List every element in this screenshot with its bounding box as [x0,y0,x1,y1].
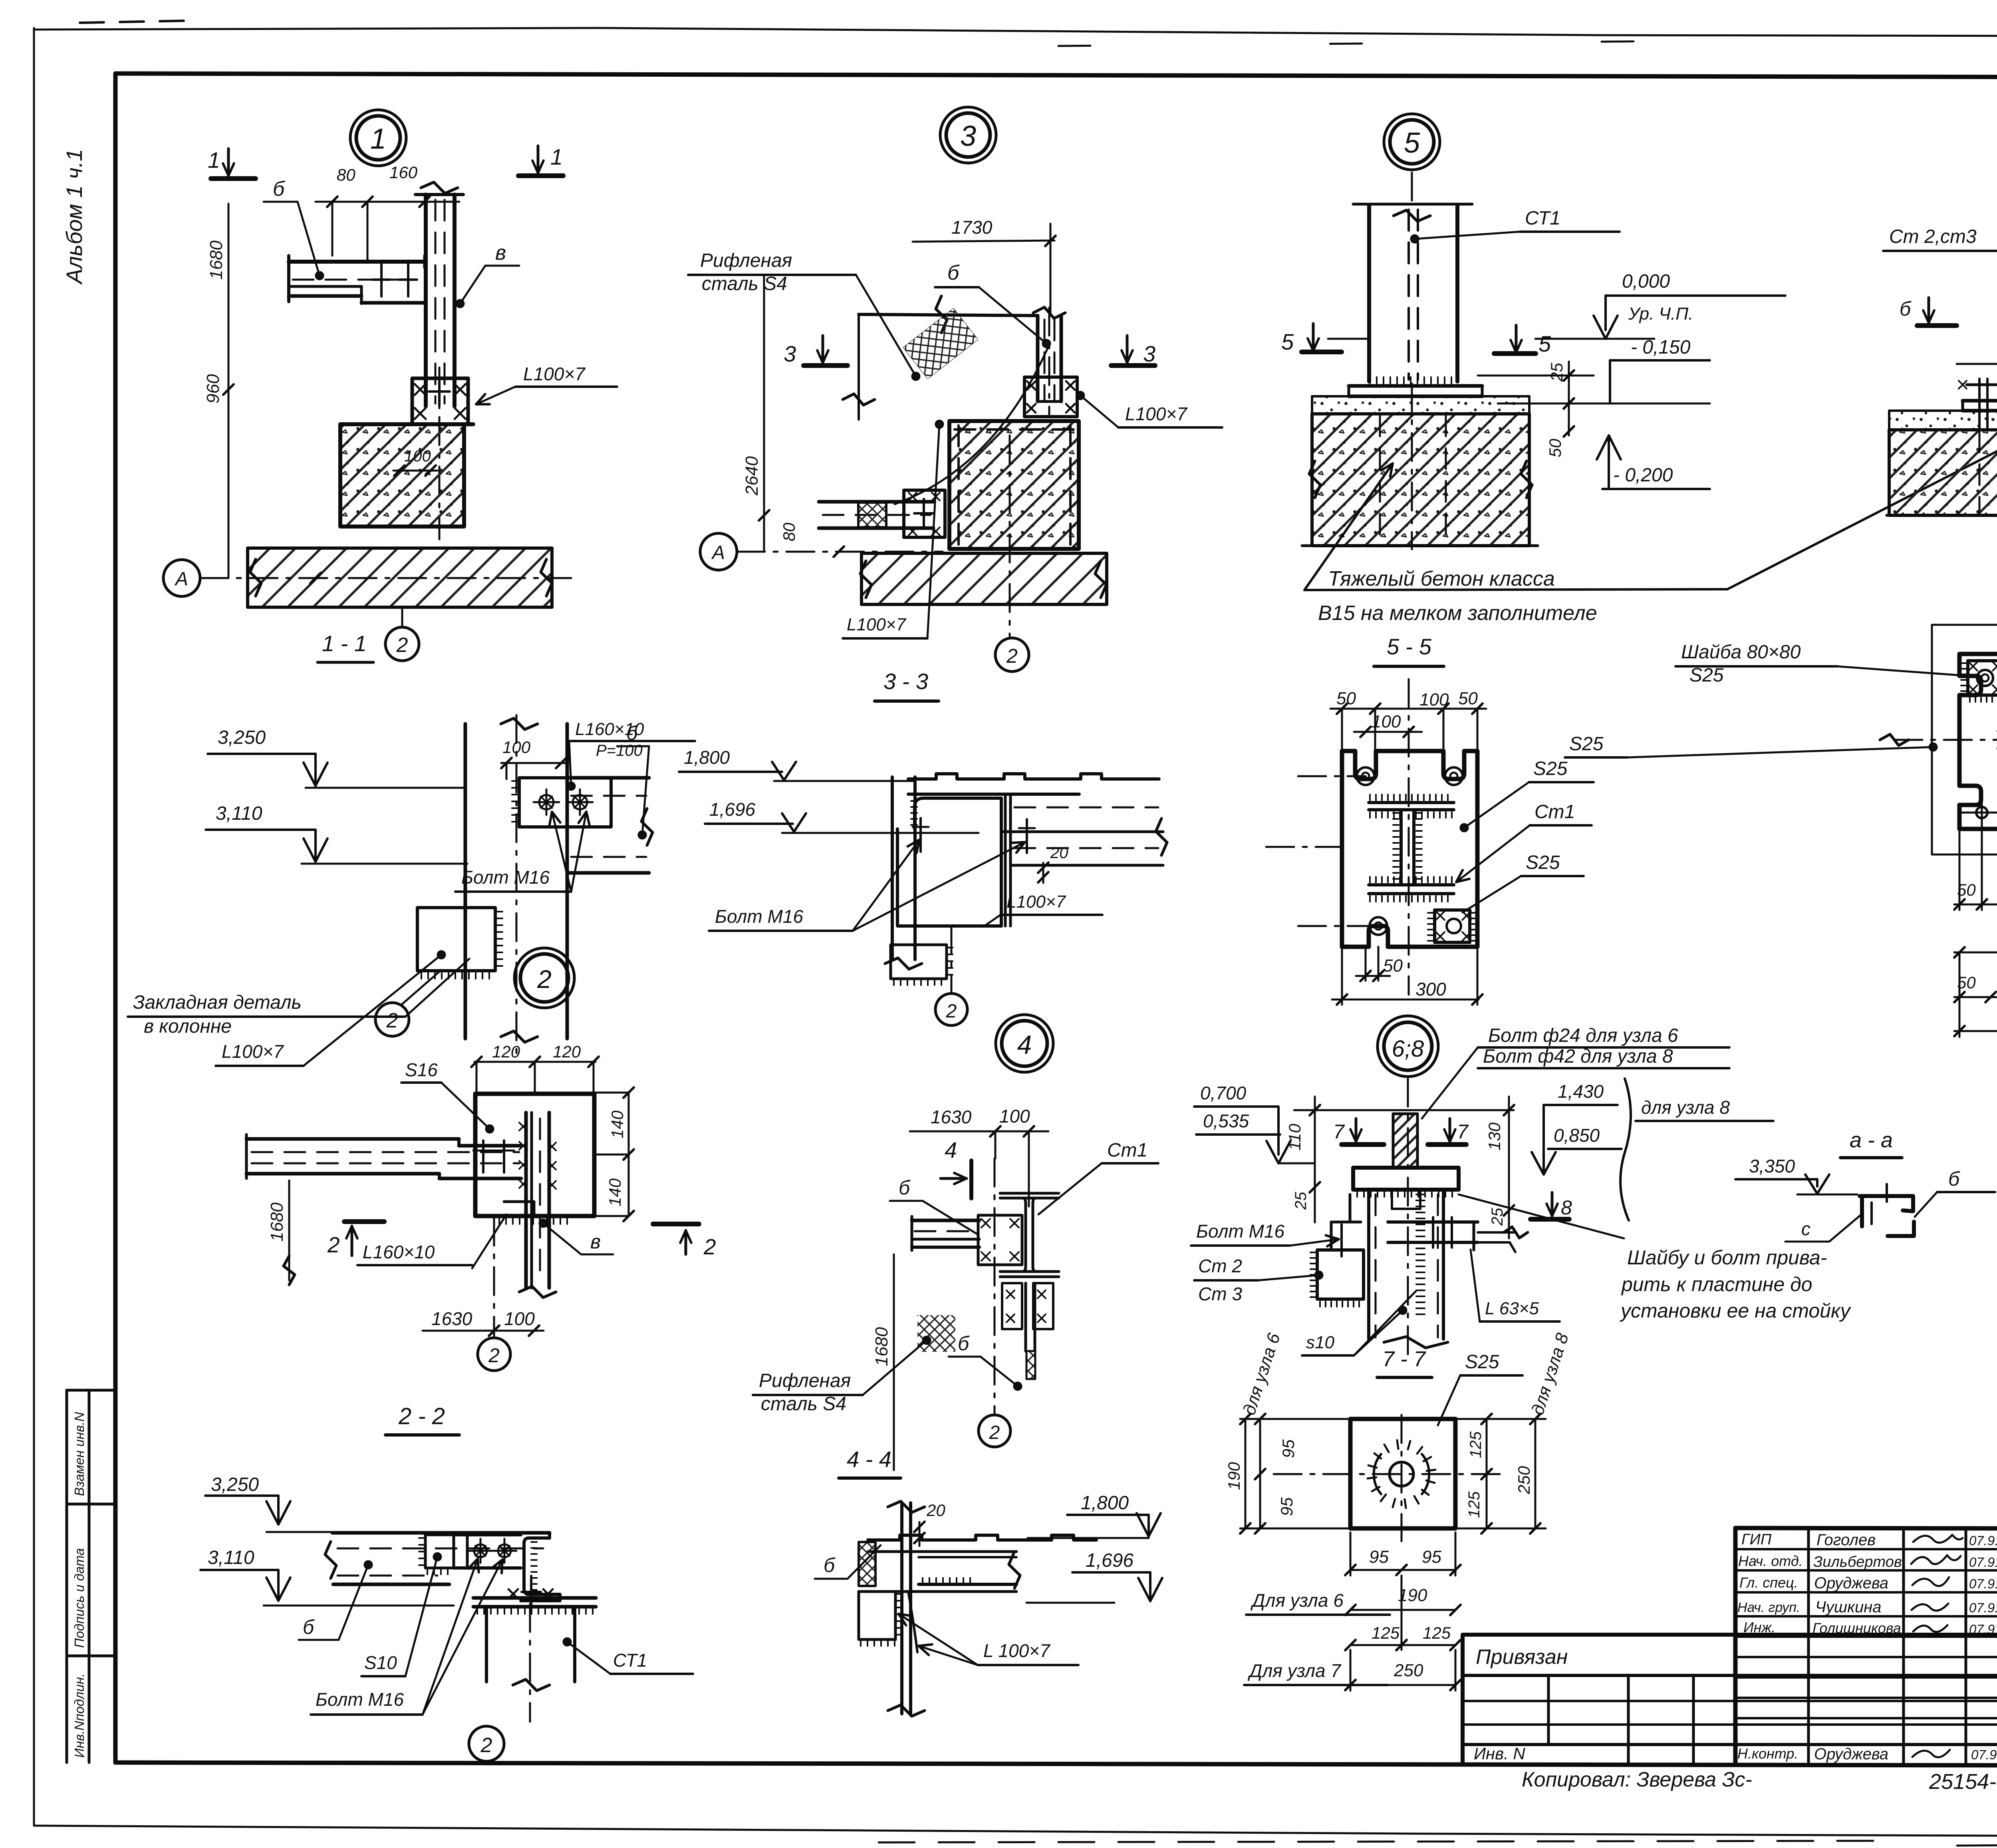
svg-text:100: 100 [404,447,431,465]
svg-text:1,800: 1,800 [684,747,730,768]
svg-text:Закладная деталь: Закладная деталь [133,992,302,1013]
node79 section marks b [1917,323,1957,328]
sec6-6 washer top left [1968,661,1997,695]
node68 mid plate [1388,1220,1478,1224]
svg-text:2: 2 [946,1001,957,1022]
svg-text:3,250: 3,250 [218,727,266,748]
sec1-1 callout 2 [375,1003,409,1036]
sheet bottom dashed trim line [879,1841,1877,1842]
sec4-4 riffled beam top [868,1535,1096,1540]
svg-text:Нач. груп.: Нач. груп. [1737,1600,1800,1615]
svg-text:Зильбертов: Зильбертов [1813,1554,1902,1570]
svg-text:5: 5 [1538,331,1551,356]
sec3-3 right flange [1004,794,1007,926]
node 3 axis A [700,533,737,570]
svg-text:4: 4 [945,1137,957,1162]
svg-text:25: 25 [1547,363,1566,382]
node 1 footing concrete [340,424,464,527]
node68 callout circle [1384,1022,1432,1070]
svg-text:А: А [174,568,188,590]
svg-text:2: 2 [480,1734,492,1757]
sec4-4 beam bottom chord [919,1583,1016,1586]
svg-text:3 - 3: 3 - 3 [883,669,928,694]
svg-text:сталь S4: сталь S4 [702,273,787,294]
svg-text:7: 7 [1333,1121,1345,1143]
svg-text:Ст 2,ст3: Ст 2,ст3 [1889,226,1977,247]
node 3 pit outline [859,314,1038,316]
node 5 callout circle [1390,120,1434,164]
svg-text:б: б [626,722,638,744]
svg-text:100: 100 [502,738,531,757]
svg-text:Оруджева: Оруджева [1814,1574,1888,1592]
svg-text:3: 3 [1143,341,1155,366]
svg-text:Болт ф42 для узла 8: Болт ф42 для узла 8 [1483,1046,1673,1067]
names table rows [1735,1548,1997,1550]
node68 top washer plate [1353,1168,1459,1190]
node79 level line [1957,363,1997,365]
node 3 section mark left [804,363,848,368]
svg-text:3,350: 3,350 [1749,1156,1795,1176]
svg-text:установки ее на стойку: установки ее на стойку [1620,1300,1852,1322]
sec6-6 break dim lines [1932,624,1997,626]
node 3 callout 2 [995,638,1029,672]
svg-text:95: 95 [1277,1497,1296,1516]
sec4-4 curve cut [908,1592,917,1652]
svg-text:S10: S10 [364,1652,397,1673]
svg-text:Болт М16: Болт М16 [316,1689,404,1710]
svg-text:Болт ф24 для узла 6: Болт ф24 для узла 6 [1488,1025,1678,1046]
svg-text:L160×10: L160×10 [363,1242,435,1262]
sec1-1 connection plate [519,778,611,827]
svg-text:190: 190 [1225,1462,1243,1490]
svg-text:L100×7: L100×7 [1125,403,1187,424]
svg-text:Гл. спец.: Гл. спец. [1739,1574,1798,1591]
svg-text:250: 250 [1394,1661,1423,1680]
svg-text:50: 50 [1383,956,1403,976]
node 4 riffled patch [917,1315,955,1352]
svg-text:Ур. Ч.П.: Ур. Ч.П. [1628,304,1693,324]
svg-text:1: 1 [550,144,563,169]
svg-text:Нач. отд.: Нач. отд. [1738,1553,1803,1569]
svg-text:5: 5 [1281,329,1294,354]
title block outer [1735,1528,1997,1529]
svg-text:20: 20 [926,1501,945,1520]
svg-text:300: 300 [1415,979,1446,1000]
sec5-5 top hole circles [1357,767,1374,785]
sec3-3 bolts [919,818,922,852]
svg-text:Н.контр.: Н.контр. [1737,1745,1798,1762]
node68 left bracket [1317,1250,1364,1299]
svg-text:б: б [1900,298,1912,320]
sec7-7 plate [1350,1419,1455,1528]
sheet outer edge bottom [34,1826,1410,1834]
svg-text:80: 80 [780,523,798,541]
sec5-5 plate outline [1342,751,1477,947]
svg-text:S25: S25 [1526,852,1560,873]
node 2 plate [475,1094,594,1216]
svg-text:Для узла 6: Для узла 6 [1250,1590,1344,1611]
svg-text:Оруджева: Оруджева [1814,1745,1888,1763]
sec4-4 gusset below [859,1592,895,1639]
sec3-3 callout 2 [935,994,967,1025]
svg-text:0,850: 0,850 [1554,1125,1600,1146]
svg-text:s10: s10 [1306,1333,1334,1352]
svg-text:1: 1 [208,147,220,173]
sec8 left mark [1402,1376,1403,1377]
svg-text:Тяжелый бетон класса: Тяжелый бетон класса [1328,567,1555,590]
svg-text:120: 120 [492,1042,520,1061]
node79 anchor bolts [1978,379,1981,429]
drawing frame top [115,74,1997,78]
sec2-2 beam [332,1531,550,1535]
svg-text:Ст1: Ст1 [1534,801,1575,823]
node 5 foundation [1312,414,1529,546]
sec7-7 left dims [1259,1419,1261,1528]
sec1-1 column [464,724,467,1039]
svg-text:Инв. N: Инв. N [1474,1744,1525,1763]
svg-text:ГИП: ГИП [1741,1531,1772,1548]
svg-text:20: 20 [1050,844,1068,862]
svg-text:25154-01: 25154-01 [1929,1770,1997,1794]
sec3-3 bent plate box [897,798,1001,926]
svg-text:б: б [899,1176,911,1199]
svg-text:2: 2 [537,965,552,994]
sheet outer edge left [33,28,35,1826]
node 3 curved leader [895,346,1048,504]
svg-text:3: 3 [960,120,976,152]
svg-text:125: 125 [1423,1623,1451,1642]
svg-text:2: 2 [386,1009,398,1032]
node 1 axis A [163,560,200,596]
svg-text:S25: S25 [1689,665,1724,686]
sec5-5 I beam section [1369,801,1454,804]
svg-text:Шайба 80×80: Шайба 80×80 [1681,642,1801,663]
node 5 section marks 5 [1302,350,1342,354]
svg-text:б: б [947,261,960,284]
svg-text:6;8: 6;8 [1392,1036,1424,1062]
drawing frame bottom [115,1763,1997,1766]
svg-text:Гоголев: Гоголев [1816,1531,1876,1549]
node68 section marks 7 [1342,1142,1384,1147]
svg-text:2640: 2640 [742,456,762,496]
node68 bolt rod [1393,1114,1417,1168]
svg-text:б: б [958,1332,970,1355]
svg-text:95: 95 [1369,1547,1389,1567]
node 1 column [424,195,428,406]
svg-text:Подпись и дата: Подпись и дата [72,1548,87,1648]
node 2 weld x marks [519,1123,527,1131]
svg-text:P=100: P=100 [596,742,643,759]
sec6-6 centerlines [1894,739,1997,741]
svg-text:S16: S16 [405,1059,438,1080]
svg-text:в колонне: в колонне [144,1016,232,1037]
svg-text:2: 2 [1006,645,1018,667]
node 2 beam plan [246,1137,459,1141]
svg-text:0,000: 0,000 [1622,271,1670,292]
svg-text:в: в [495,241,506,264]
svg-text:СТ1: СТ1 [613,1650,647,1671]
svg-text:125: 125 [1372,1623,1400,1642]
svg-text:б: б [824,1554,836,1576]
node 5 base plate [1349,384,1482,388]
sec5-5 washer bottom right [1435,910,1470,942]
svg-text:07.91: 07.91 [1969,1576,1997,1591]
node 3 beam angle box [904,490,945,537]
svg-text:Чушкина: Чушкина [1815,1598,1882,1616]
svg-text:Копировал: Зверева Зс-: Копировал: Зверева Зс- [1522,1768,1752,1791]
svg-text:L100×7: L100×7 [523,364,586,384]
node 1 section mark left [211,176,256,181]
svg-text:07.91: 07.91 [1969,1555,1997,1570]
svg-text:Взамен инв.N: Взамен инв.N [72,1412,87,1496]
node 4 I-beam CT1 [1000,1193,1059,1277]
svg-text:Привязан: Привязан [1476,1645,1568,1669]
svg-text:50: 50 [1546,439,1564,457]
svg-text:160: 160 [389,163,418,182]
signatures [1913,1535,1963,1543]
node68 section mark 8 [1531,1217,1569,1222]
node 4 section mark 4 [969,1160,973,1198]
drawing frame left [113,74,118,1763]
svg-text:125: 125 [1467,1431,1485,1458]
privyazan box [1463,1633,1997,1637]
svg-text:0,700: 0,700 [1200,1083,1247,1103]
privyazan grid [1463,1700,1997,1702]
node 5 column [1367,205,1371,382]
svg-text:3,110: 3,110 [216,803,262,824]
svg-text:07.91: 07.91 [1969,1533,1997,1548]
svg-text:1630: 1630 [931,1107,972,1127]
node 2 bracket small [504,1202,534,1216]
svg-text:А: А [711,542,725,563]
svg-text:Ст1: Ст1 [1107,1140,1147,1161]
sec2-2 I beam end [521,1533,560,1601]
svg-text:2: 2 [989,1422,1000,1443]
node79 foundation [1889,430,1997,515]
svg-text:110: 110 [1285,1123,1304,1151]
node 3 floor slab [862,553,1107,604]
node 2 beam bolts [482,1141,484,1172]
svg-text:2: 2 [488,1344,500,1367]
node68 column [1367,1190,1370,1339]
svg-text:8: 8 [1561,1196,1572,1219]
svg-text:140: 140 [605,1178,624,1206]
svg-text:2: 2 [703,1234,716,1259]
svg-text:L100×7: L100×7 [1006,892,1066,912]
node 1 centerline [439,368,441,539]
node 4 lower weld boxes [1002,1283,1022,1329]
node 4 centerline [994,1158,996,1414]
svg-text:для узла 8: для узла 8 [1641,1097,1730,1118]
svg-text:2 - 2: 2 - 2 [398,1403,445,1429]
svg-text:960: 960 [203,374,223,403]
svg-text:1680: 1680 [267,1202,287,1242]
svg-text:Для узла 7: Для узла 7 [1247,1660,1341,1681]
names table columns [1807,1528,1810,1763]
svg-text:Рифленая: Рифленая [700,250,792,271]
svg-text:95: 95 [1422,1547,1441,1567]
svg-text:Рифленая: Рифленая [759,1370,851,1391]
svg-text:с: с [1801,1218,1810,1239]
node 2 dims 140 140 [628,1093,630,1216]
node 4 stem [1024,1283,1027,1351]
svg-text:сталь S4: сталь S4 [761,1393,846,1415]
svg-text:125: 125 [1465,1491,1483,1518]
svg-text:50: 50 [1458,689,1478,708]
sec7-7 bottom dims [1350,1569,1455,1571]
sec1-1 beam right [567,776,649,780]
svg-text:Болт М16: Болт М16 [715,906,803,927]
svg-text:L 100×7: L 100×7 [983,1640,1050,1661]
svg-text:1,696: 1,696 [1086,1550,1133,1571]
node 2 section mark 2 left [344,1219,384,1224]
node 1 floor slab [248,548,552,607]
node 3 concrete block [949,421,1079,549]
svg-text:L 63×5: L 63×5 [1485,1299,1539,1318]
node 2 centerline and dims [493,1218,495,1336]
sec6-6 bottom dims [1954,904,1997,906]
svg-text:1,430: 1,430 [1558,1081,1604,1102]
svg-text:100: 100 [999,1106,1030,1127]
sec7-7 center hole [1390,1462,1413,1486]
sec3-3 column [891,777,894,960]
node 4 beam from left [912,1219,979,1222]
svg-text:в: в [590,1230,601,1253]
svg-text:5: 5 [1404,127,1420,159]
svg-text:Альбом 1 ч.1: Альбом 1 ч.1 [62,149,87,285]
sec4-4 column [900,1503,903,1714]
sec7-7 centerlines [1274,1473,1503,1475]
node79 grout [1889,411,1997,430]
svg-text:Ст 3: Ст 3 [1198,1284,1242,1304]
svg-text:7: 7 [1457,1121,1469,1143]
svg-text:- 0,200: - 0,200 [1613,465,1673,486]
svg-text:S25: S25 [1465,1351,1499,1373]
top edge dashes [80,21,184,23]
sec2-2 angle leg [454,1533,521,1536]
svg-text:Болт М16: Болт М16 [461,867,550,888]
node 2 column plan [524,1113,528,1288]
sec5-5 centerlines [1408,679,1410,995]
svg-text:Болт М16: Болт М16 [1196,1221,1284,1242]
sec3-3 lower plate [891,945,947,979]
svg-text:Инв.Nподлин.: Инв.Nподлин. [72,1673,87,1758]
svg-text:1680: 1680 [206,240,226,280]
svg-text:3: 3 [784,341,796,366]
node 3 column [1036,316,1040,401]
svg-text:1630: 1630 [431,1308,472,1329]
node 2 callout circle [520,954,568,1002]
node 1 beam [289,260,425,264]
svg-text:В15 на мелком заполнителе: В15 на мелком заполнителе [1318,602,1597,625]
svg-text:L100×7: L100×7 [847,615,907,634]
node 4 dim 1680 [893,1254,895,1470]
svg-text:рить к пластине до: рить к пластине до [1621,1273,1812,1296]
svg-text:б: б [1948,1168,1960,1190]
svg-text:0,535: 0,535 [1203,1111,1249,1131]
sec3-3 centerline [951,926,953,992]
svg-text:- 0,150: - 0,150 [1631,337,1691,358]
svg-text:25: 25 [1292,1192,1310,1210]
svg-text:140: 140 [608,1110,627,1139]
svg-text:3,250: 3,250 [211,1474,259,1495]
node 5 grout [1312,396,1529,414]
sec2-2 column base [473,1596,596,1600]
svg-text:S25: S25 [1533,758,1568,779]
node 3 section mark right [1111,363,1155,368]
sec2-2 callout 2 [469,1726,504,1761]
svg-text:4: 4 [1017,1030,1032,1059]
svg-text:4 - 4: 4 - 4 [847,1447,891,1472]
sheet outer edge top [34,28,1997,37]
svg-text:2: 2 [327,1232,340,1257]
sec5-5 bottom hole [1370,917,1387,935]
svg-text:1,696: 1,696 [709,799,756,820]
node 3 riffled patch [903,308,978,379]
node 3 callout circle [946,113,990,157]
sec3-3 beam lines [1014,807,1158,809]
svg-text:1: 1 [370,123,386,155]
svg-text:130: 130 [1485,1122,1504,1151]
node 4 callout 2 [979,1415,1010,1447]
svg-text:07.91: 07.91 [1971,1747,1997,1762]
node 4 callout circle [1002,1021,1047,1066]
svg-text:а - а: а - а [1850,1128,1893,1152]
node 1 beam bolts [380,263,383,296]
node 1 base angle [412,378,468,424]
sec2-2 plate s10 [425,1535,454,1568]
node 1 section mark right [518,173,563,178]
node 2 dim 1680 [288,1180,290,1280]
sec3-3 riffled top plate [908,774,1159,779]
svg-text:1,800: 1,800 [1081,1492,1129,1514]
svg-text:07.91: 07.91 [1969,1600,1997,1615]
svg-text:б: б [303,1616,315,1638]
svg-text:б: б [273,177,285,201]
svg-text:100: 100 [504,1308,535,1329]
node 3 centerline to callout [1009,435,1011,636]
sec6-6 plate [1959,654,1997,829]
node 3 upper angle box [1024,377,1077,417]
node 4 left plate with welds [978,1215,1022,1265]
node68 small washer below [1392,1190,1420,1209]
node 1 dim 1680 vertical [228,204,230,578]
sec1-1 lower plate [417,908,495,971]
sec4-4 left angle hatch [859,1542,875,1586]
node68 angle right [1478,1232,1515,1252]
node 2 plate weld combs [499,1216,567,1224]
secAA channel [1860,1196,1913,1211]
node 3 beam left [819,500,933,504]
svg-text:5 - 5: 5 - 5 [1387,634,1432,659]
svg-text:2: 2 [396,634,408,657]
svg-text:Ст 2: Ст 2 [1198,1256,1242,1276]
node 2 section mark 2 right [653,1222,699,1226]
node 3 dim 2640 vertical [763,276,765,550]
svg-text:1 - 1: 1 - 1 [322,631,367,656]
svg-text:L100×7: L100×7 [222,1041,284,1062]
svg-text:1680: 1680 [872,1327,891,1366]
left margin strip [66,1390,68,1763]
svg-text:1730: 1730 [951,217,993,238]
svg-text:СТ1: СТ1 [1525,208,1560,229]
node 1 callout circle [356,116,400,160]
node79 base plate [1963,399,1997,403]
svg-text:S25: S25 [1569,733,1604,755]
svg-text:80: 80 [337,165,355,184]
svg-text:3,110: 3,110 [208,1547,254,1568]
node 2 callout 2 bottom [478,1338,510,1371]
